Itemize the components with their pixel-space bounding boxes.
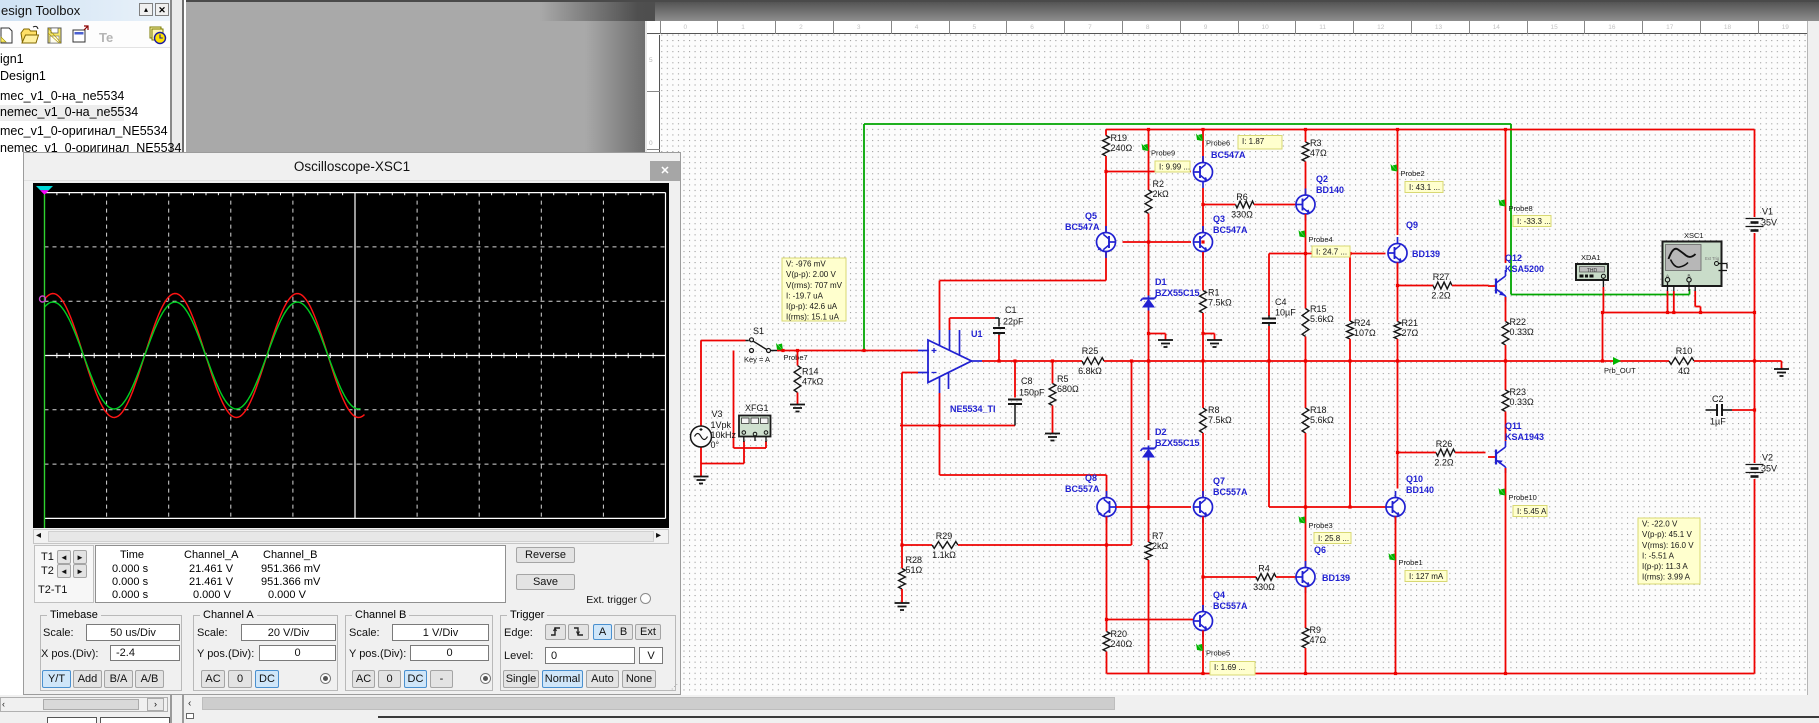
- svg-text:Ext Trig: Ext Trig: [1705, 256, 1720, 261]
- junction: [1396, 451, 1399, 454]
- wire base rail Q5-Q3: [1123, 241, 1192, 243]
- junction: [1104, 170, 1107, 173]
- svg-text:XDA1: XDA1: [1581, 253, 1601, 262]
- wire to D1: [1148, 242, 1150, 296]
- wire D2 to base rail: [1148, 461, 1150, 508]
- capacitor C1 22pF: [993, 305, 1024, 336]
- junction: [1753, 408, 1756, 411]
- svg-text:C8: C8: [1021, 376, 1033, 386]
- svg-text:R3: R3: [1310, 138, 1322, 148]
- svg-text:R29: R29: [936, 531, 953, 541]
- svg-text:5.6kΩ: 5.6kΩ: [1310, 415, 1334, 425]
- junction: [1699, 311, 1702, 314]
- svg-text:I: 127 mA: I: 127 mA: [1409, 572, 1444, 581]
- capacitor C8 150pF: [1008, 376, 1045, 426]
- junction Q3 base: [1201, 240, 1204, 243]
- wire R27 to Q12 base: [1452, 285, 1488, 287]
- transistor Q10 BD140: [1386, 474, 1423, 523]
- svg-text:R1: R1: [1208, 288, 1220, 298]
- junction: [1201, 575, 1204, 578]
- measurement box output: [1638, 518, 1700, 584]
- probe Probe9: [1142, 144, 1176, 158]
- junction output rail: [1013, 359, 1016, 362]
- svg-text:51Ω: 51Ω: [906, 565, 923, 575]
- wire Q9 emitter: [1397, 263, 1399, 286]
- source V3 1Vpk 10kHz: [691, 409, 737, 450]
- svg-text:330Ω: 330Ω: [1231, 210, 1253, 220]
- wire rail to ground: [1694, 360, 1782, 362]
- wire feedback node horizontal: [900, 425, 1015, 427]
- wire ground stub: [1165, 334, 1167, 340]
- wire R15 top: [1305, 254, 1307, 309]
- svg-text:Q11: Q11: [1505, 421, 1522, 431]
- transistor Q12 KSA5200: [1488, 253, 1544, 302]
- junction probe7: [781, 349, 784, 352]
- svg-text:2kΩ: 2kΩ: [1153, 189, 1170, 199]
- svg-text:V(p-p): 2.00 V: V(p-p): 2.00 V: [786, 270, 836, 279]
- battery V2 35V: [1746, 453, 1778, 477]
- bottom scrollbars / spreadsheet edge: [0, 695, 1819, 723]
- svg-text:47Ω: 47Ω: [1310, 635, 1327, 645]
- wire input line to op-amp +: [777, 350, 918, 352]
- wire to Q6 collector: [1305, 507, 1307, 568]
- transistor Q2 BD140: [1296, 174, 1328, 221]
- svg-text:Q12: Q12: [1505, 253, 1522, 263]
- wire R14 bottom: [797, 393, 799, 405]
- resistor R26 2.2Ω: [1434, 439, 1455, 468]
- wire to rail: [1148, 334, 1150, 362]
- svg-text:R21: R21: [1402, 318, 1419, 328]
- svg-text:1µF: 1µF: [1710, 417, 1726, 427]
- svg-text:XSC1: XSC1: [1684, 231, 1704, 240]
- resistor R1 7.5kΩ: [1200, 288, 1232, 314]
- resistor R9 47Ω: [1302, 625, 1326, 648]
- svg-text:0°: 0°: [711, 440, 720, 450]
- svg-text:KSA1943: KSA1943: [1505, 432, 1544, 442]
- svg-text:BD140: BD140: [1316, 185, 1344, 195]
- wire to R4: [1203, 576, 1256, 578]
- wire R21 top: [1397, 286, 1399, 322]
- svg-text:R28: R28: [906, 555, 923, 565]
- svg-text:7.5kΩ: 7.5kΩ: [1208, 298, 1232, 308]
- svg-text:I: 9.99 ...: I: 9.99 ...: [1159, 163, 1190, 172]
- svg-text:R19: R19: [1111, 133, 1128, 143]
- wire Q3 emitter: [1202, 252, 1204, 291]
- wire Q11 emitter to rail: [1505, 468, 1507, 674]
- svg-text:V3: V3: [712, 409, 723, 419]
- svg-text:BD140: BD140: [1406, 485, 1434, 495]
- transistor Q9 BD139: [1388, 220, 1418, 269]
- wire R18 top: [1305, 361, 1307, 408]
- wire scope A-: [1673, 291, 1675, 313]
- svg-text:BZX55C15: BZX55C15: [1155, 288, 1200, 298]
- svg-text:10µF: 10µF: [1275, 308, 1296, 318]
- wire R1 bottom: [1202, 313, 1204, 334]
- svg-text:BD139: BD139: [1322, 573, 1350, 583]
- svg-text:22pF: 22pF: [1003, 317, 1024, 327]
- junction comp pin: [938, 424, 941, 427]
- transistor Q8 BC557A: [1085, 473, 1116, 523]
- svg-text:C4: C4: [1275, 297, 1287, 307]
- resistor R10 4Ω: [1669, 346, 1694, 376]
- svg-text:Q10: Q10: [1406, 474, 1423, 484]
- svg-text:5.6kΩ: 5.6kΩ: [1310, 314, 1334, 324]
- junction top rail: [1504, 128, 1507, 131]
- junction base rail/R2: [1147, 240, 1150, 243]
- svg-text:V(rms): 16.0 V: V(rms): 16.0 V: [1642, 541, 1694, 550]
- svg-text:R9: R9: [1310, 625, 1322, 635]
- oscilloscope icon XSC1: [1663, 231, 1728, 291]
- resistor R3 47Ω: [1302, 138, 1327, 162]
- svg-text:47Ω: 47Ω: [1310, 148, 1327, 158]
- probe Probe10: [1499, 488, 1537, 502]
- svg-text:BC557A: BC557A: [1213, 487, 1248, 497]
- net to scope channel B (green wire): [864, 124, 1690, 351]
- svg-text:Key = A: Key = A: [744, 355, 770, 364]
- svg-text:1Vpk: 1Vpk: [711, 420, 732, 430]
- ground (R28): [895, 603, 910, 610]
- svg-text:R23: R23: [1510, 387, 1527, 397]
- wire Q1 collector: [1202, 130, 1204, 164]
- junction: [1601, 359, 1604, 362]
- svg-text:R5: R5: [1057, 374, 1069, 384]
- wire V3 to XFG1 ground leg: [701, 463, 744, 465]
- wire Q6 emitter: [1305, 587, 1307, 628]
- junction: [1394, 672, 1397, 675]
- svg-text:R2: R2: [1153, 179, 1165, 189]
- svg-text:I: -5.51 A: I: -5.51 A: [1642, 551, 1675, 560]
- capacitor C4 10µF: [1262, 297, 1296, 326]
- svg-text:Q4: Q4: [1213, 590, 1225, 600]
- junction: [1201, 672, 1204, 675]
- wire ground stub: [1781, 361, 1783, 369]
- resistor R4 330Ω: [1253, 564, 1276, 593]
- wire Q12 emitter: [1505, 297, 1507, 322]
- wire to Q10 collector: [1397, 453, 1399, 489]
- svg-text:Prb_OUT: Prb_OUT: [1604, 366, 1636, 375]
- wire Q4 to bottom rail: [1202, 631, 1204, 674]
- svg-text:C1: C1: [1005, 305, 1017, 315]
- wire to Q8 collector: [940, 474, 1107, 476]
- wire to R27: [1398, 285, 1434, 287]
- junction: [1147, 505, 1150, 508]
- wire R8 top: [1202, 361, 1204, 408]
- svg-text:R4: R4: [1258, 564, 1270, 574]
- switch S1: [744, 326, 777, 364]
- svg-text:47kΩ: 47kΩ: [802, 377, 824, 387]
- probe3 value: [1314, 533, 1351, 544]
- resistor R15 5.6kΩ: [1302, 304, 1334, 337]
- wire R19 top: [1105, 130, 1107, 136]
- svg-text:4Ω: 4Ω: [1678, 366, 1690, 376]
- wire R23 bottom: [1505, 412, 1507, 442]
- junction: [1504, 359, 1507, 362]
- Design Toolbox panel: [0, 0, 186, 712]
- wire D1 bottom: [1148, 311, 1150, 334]
- svg-text:2.2Ω: 2.2Ω: [1431, 291, 1451, 301]
- transistor Q11 KSA1943: [1488, 421, 1544, 473]
- wire R8 to Q7: [1202, 433, 1204, 498]
- svg-text:1.1kΩ: 1.1kΩ: [932, 550, 956, 560]
- zener diode D1 BZX55C15: [1141, 277, 1200, 311]
- wire V+ top rail: [1106, 129, 1755, 131]
- wire B- drop: [1700, 307, 1702, 313]
- probe9 value: [1155, 161, 1190, 172]
- resistor R5 680Ω: [1049, 374, 1079, 406]
- op-amp U1 NE5534_TI: [918, 329, 996, 414]
- resistor R6 330Ω: [1231, 192, 1254, 220]
- svg-text:Q7: Q7: [1213, 476, 1225, 486]
- junction output rail: [1147, 359, 1150, 362]
- wire feedback drop: [1131, 361, 1133, 545]
- svg-text:C2: C2: [1712, 394, 1724, 404]
- wire R5 top: [1052, 361, 1054, 384]
- wire XFG1 signal bottom: [734, 447, 767, 449]
- svg-text:R15: R15: [1310, 304, 1327, 314]
- wire to ground tee: [1203, 333, 1215, 335]
- svg-text:D2: D2: [1155, 427, 1167, 437]
- svg-text:R26: R26: [1436, 439, 1453, 449]
- junction output rail: [997, 359, 1000, 362]
- wire R5 bottom: [1052, 406, 1054, 434]
- ground (V3): [694, 477, 709, 484]
- wire V1 bottom: [1754, 233, 1756, 313]
- svg-text:R7: R7: [1152, 531, 1164, 541]
- resistor R14 47kΩ: [794, 366, 823, 393]
- svg-text:KSA5200: KSA5200: [1505, 264, 1544, 274]
- svg-text:BC557A: BC557A: [1065, 484, 1100, 494]
- ground (R14): [790, 405, 805, 412]
- resistor R28 51Ω: [899, 555, 923, 589]
- wire R18 bottom: [1305, 433, 1307, 507]
- svg-text:R18: R18: [1310, 405, 1327, 415]
- wire Q10 emitter to rail: [1395, 517, 1397, 674]
- wire R3 top: [1305, 130, 1307, 143]
- svg-text:27Ω: 27Ω: [1402, 328, 1419, 338]
- svg-text:I: -19.7 uA: I: -19.7 uA: [786, 291, 824, 300]
- measurement box input: [782, 258, 846, 322]
- probe Probe4: [1299, 230, 1333, 244]
- junction R14/input: [796, 349, 799, 352]
- resistor R25 6.8kΩ: [1078, 346, 1104, 376]
- resistor R27 2.2Ω: [1431, 272, 1452, 301]
- svg-text:Probe1: Probe1: [1399, 558, 1423, 567]
- svg-text:BD139: BD139: [1412, 249, 1440, 259]
- svg-text:U1: U1: [971, 329, 983, 339]
- junction: [1348, 252, 1351, 255]
- svg-text:Probe5: Probe5: [1206, 649, 1230, 658]
- svg-text:S1: S1: [753, 326, 764, 336]
- svg-text:2.2Ω: 2.2Ω: [1434, 458, 1454, 468]
- junction output rail: [1051, 359, 1054, 362]
- svg-text:Probe6: Probe6: [1206, 139, 1230, 148]
- svg-text:R8: R8: [1208, 405, 1220, 415]
- junction output rail: [1348, 359, 1351, 362]
- wire op-amp pin5 down: [939, 393, 941, 475]
- wire R28 bottom: [901, 589, 903, 603]
- distortion analyzer XDA1: [1576, 253, 1608, 287]
- transistor Q7 BC557A: [1194, 476, 1226, 523]
- probe10 value: [1513, 506, 1547, 517]
- probe6 value: [1238, 136, 1282, 150]
- wire ground stub: [1214, 334, 1216, 340]
- wire scope A+: [1667, 291, 1669, 313]
- probe1 value: [1405, 571, 1447, 582]
- wire R19 to Q5: [1105, 156, 1107, 233]
- junction: [1601, 311, 1604, 314]
- junction Q8 emitter rail: [1105, 543, 1108, 546]
- function generator XFG1: [739, 403, 771, 442]
- wire R21 bottom: [1397, 339, 1399, 453]
- probe8 value: [1513, 216, 1551, 227]
- wire R29 right: [958, 544, 1132, 546]
- wire R6 to Q2 base: [1254, 204, 1296, 206]
- svg-text:I(rms): 15.1 uA: I(rms): 15.1 uA: [786, 313, 840, 322]
- wire inverting to R29: [901, 426, 903, 546]
- probe Probe1: [1389, 553, 1423, 567]
- svg-text:V(p-p): 45.1 V: V(p-p): 45.1 V: [1642, 530, 1692, 539]
- wire Probe4 rail to Q9 base: [1269, 253, 1386, 255]
- transistor Q5 BC547A: [1085, 211, 1116, 258]
- wire XDA1 lead: [1602, 287, 1604, 313]
- wire to R6: [1203, 204, 1236, 206]
- wire R9 to rail: [1305, 648, 1307, 674]
- svg-text:Q2: Q2: [1316, 174, 1328, 184]
- wire R2 bottom: [1148, 214, 1150, 243]
- wire R26 to Q11 base: [1455, 452, 1486, 454]
- svg-text:107Ω: 107Ω: [1354, 328, 1376, 338]
- junction output rail: [1130, 359, 1133, 362]
- svg-text:0.33Ω: 0.33Ω: [1510, 397, 1535, 407]
- junction top rail: [1304, 128, 1307, 131]
- probe5 value: [1210, 662, 1255, 676]
- svg-text:R10: R10: [1676, 346, 1693, 356]
- svg-text:I: 24.7 ...: I: 24.7 ...: [1316, 248, 1347, 257]
- probe Probe5: [1196, 644, 1230, 658]
- junction R28/R29: [900, 543, 903, 546]
- junction: [1348, 505, 1351, 508]
- wire Probe9 drop: [1148, 130, 1150, 191]
- svg-text:6.8kΩ: 6.8kΩ: [1078, 366, 1102, 376]
- wire instrument bus: [1603, 312, 1755, 314]
- wire to output rail: [1602, 313, 1604, 362]
- probe Probe2: [1391, 164, 1425, 178]
- wire Q7 collector down: [1202, 517, 1204, 578]
- svg-text:680Ω: 680Ω: [1057, 384, 1079, 394]
- resistor R19 240Ω: [1103, 133, 1133, 156]
- junction output rail: [1267, 359, 1270, 362]
- wire op-amp - input: [902, 372, 918, 374]
- wire to Q4 base: [1107, 619, 1194, 621]
- svg-text:2kΩ: 2kΩ: [1152, 541, 1169, 551]
- wire Q9 collector riser: [1397, 130, 1399, 236]
- svg-text:NE5534_TI: NE5534_TI: [950, 404, 996, 414]
- svg-text:Probe8: Probe8: [1509, 204, 1533, 213]
- junction: [1304, 505, 1307, 508]
- ground (R5): [1045, 434, 1060, 441]
- wire op-amp pin8 up: [949, 318, 951, 330]
- junction: [1672, 311, 1675, 314]
- wire V1 top: [1754, 130, 1756, 218]
- junction: [1201, 332, 1204, 335]
- svg-text:BZX55C15: BZX55C15: [1155, 438, 1200, 448]
- wire V2 to bottom rail: [1754, 479, 1756, 674]
- svg-text:R24: R24: [1354, 318, 1371, 328]
- wire R24 top: [1349, 254, 1351, 322]
- svg-text:I: 43.1 ...: I: 43.1 ...: [1409, 183, 1440, 192]
- wire B- jog: [1695, 306, 1700, 308]
- wire XFG1 left pin: [743, 441, 745, 464]
- wire R7 top: [1148, 507, 1150, 542]
- svg-text:BC547A: BC547A: [1065, 222, 1100, 232]
- junction top rail: [1147, 128, 1150, 131]
- svg-text:240Ω: 240Ω: [1111, 639, 1133, 649]
- wire C1 to output: [998, 335, 1000, 361]
- wire to R20: [1106, 545, 1108, 632]
- wire R7 to bottom rail: [1148, 560, 1150, 674]
- wire inverting riser: [901, 373, 903, 426]
- wire C2 to V2 column: [1732, 409, 1755, 411]
- wire to D2: [1148, 361, 1150, 440]
- svg-text:0.33Ω: 0.33Ω: [1510, 327, 1535, 337]
- svg-text:35V: 35V: [1761, 218, 1777, 228]
- svg-text:35V: 35V: [1761, 464, 1777, 474]
- svg-text:Q8: Q8: [1085, 473, 1097, 483]
- probe Probe8: [1499, 199, 1533, 213]
- svg-text:I(p-p): 11.3 A: I(p-p): 11.3 A: [1642, 562, 1688, 571]
- svg-text:I: -33.3 ...: I: -33.3 ...: [1517, 217, 1551, 226]
- svg-text:150pF: 150pF: [1019, 388, 1045, 398]
- wire R4 to Q6 base: [1276, 576, 1296, 578]
- wire V+ to Q5 emitter: [940, 280, 1107, 282]
- resistor R23 0.33Ω: [1502, 387, 1534, 412]
- capacitor C2 1µF: [1706, 394, 1733, 427]
- svg-text:330Ω: 330Ω: [1253, 582, 1275, 592]
- svg-text:Probe10: Probe10: [1509, 493, 1537, 502]
- svg-text:Probe7: Probe7: [784, 353, 808, 362]
- wire V2 top: [1754, 410, 1756, 463]
- transistor Q6 BD139: [1296, 561, 1350, 593]
- junction: [1396, 284, 1399, 287]
- wire C4 bottom: [1268, 326, 1270, 361]
- wire Q5 emitter down: [1105, 252, 1107, 281]
- svg-text:XFG1: XFG1: [745, 403, 769, 413]
- junction: [1147, 332, 1150, 335]
- probe Probe3: [1299, 516, 1333, 530]
- wire Probe8 drop: [1505, 130, 1507, 264]
- probe2 value: [1405, 182, 1443, 193]
- junction top rail: [1396, 128, 1399, 131]
- svg-text:I: 5.45 A: I: 5.45 A: [1517, 507, 1547, 516]
- junction top rail: [1201, 128, 1204, 131]
- svg-text:Q5: Q5: [1085, 211, 1097, 221]
- wire VAS emitter rail: [1269, 506, 1386, 508]
- wire R14 top: [797, 351, 799, 366]
- wire scope B-: [1694, 291, 1696, 307]
- wire base rail Q8-Q7: [1116, 506, 1191, 508]
- wire bottom rail: [1107, 673, 1755, 675]
- wire output rail: [1104, 360, 1669, 362]
- wire XFG1 right pin: [765, 441, 767, 448]
- svg-text:V: -22.0 V: V: -22.0 V: [1642, 520, 1678, 529]
- svg-text:BC547A: BC547A: [1211, 150, 1246, 160]
- wire Q8 emitter: [1106, 517, 1108, 546]
- svg-text:240Ω: 240Ω: [1111, 143, 1133, 153]
- junction: [1304, 672, 1307, 675]
- svg-text:Q6: Q6: [1314, 545, 1326, 555]
- ground (R1): [1207, 340, 1222, 347]
- resistor R20 240Ω: [1103, 629, 1132, 652]
